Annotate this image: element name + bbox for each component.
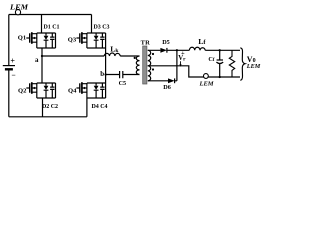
svg-text:Cf: Cf [208,56,214,63]
svg-text:+: + [10,56,15,65]
svg-text:Lf: Lf [198,37,206,46]
svg-text:TR: TR [141,39,150,46]
svg-text:LEM: LEM [246,63,261,70]
svg-text:Vr: Vr [178,55,186,63]
svg-text:Q4: Q4 [68,88,77,95]
svg-text:D4 C4: D4 C4 [92,104,108,110]
svg-text:Q1: Q1 [18,35,26,42]
svg-text:LEM: LEM [199,80,214,87]
svg-text:C5: C5 [119,80,127,87]
svg-text:D3 C3: D3 C3 [94,24,110,30]
svg-text:Q3: Q3 [68,37,77,44]
svg-text:D1 C1: D1 C1 [44,24,60,30]
svg-text:D5: D5 [162,39,170,46]
svg-text:LEM: LEM [9,4,29,11]
svg-text:−: − [11,70,15,79]
svg-text:a: a [35,56,39,64]
svg-text:D2 C2: D2 C2 [42,104,58,110]
svg-text:Q2: Q2 [18,88,27,95]
svg-text:b: b [100,70,104,78]
svg-text:D6: D6 [163,84,171,91]
